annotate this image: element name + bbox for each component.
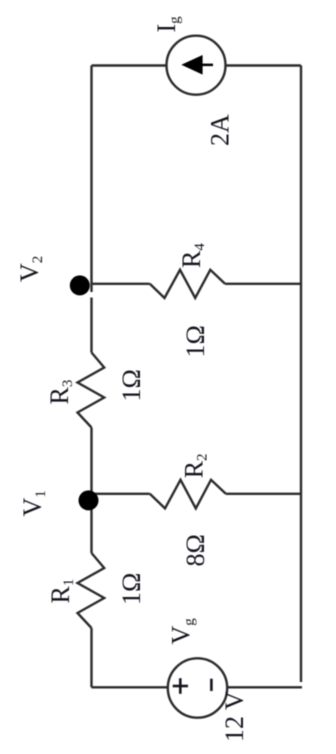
node V2 dot (70, 275, 90, 295)
svg-text:V1: V1 (18, 490, 49, 516)
wire bottom horizontal (left of voltage source) (92, 686, 169, 688)
voltage source Vg circle (168, 658, 227, 717)
wire left vertical (R3 to R1 through node V1) (90, 428, 92, 554)
svg-text:1Ω: 1Ω (117, 369, 146, 401)
svg-text:8Ω: 8Ω (181, 534, 210, 566)
current source arrow (181, 55, 213, 75)
resistor R4 (150, 270, 225, 298)
voltage source plus sign (173, 678, 188, 694)
svg-text:2A: 2A (206, 114, 235, 146)
svg-text:12 V: 12 V (220, 691, 249, 742)
svg-text:R3: R3 (45, 380, 76, 405)
resistor R3 (78, 353, 105, 428)
resistor R2 (150, 480, 226, 509)
svg-text:Vg: Vg (167, 618, 198, 645)
wire left vertical (below V2 gap to R3) (90, 298, 92, 353)
svg-text:1Ω: 1Ω (117, 573, 146, 605)
wire right vertical (300, 66, 302, 683)
wire top horizontal (left of current source) (92, 64, 167, 66)
voltage source minus sign (210, 679, 213, 691)
wire left vertical upper (top corner to node V2) (90, 66, 92, 293)
svg-text:Ig: Ig (152, 16, 183, 33)
wire top horizontal (right of current source) (226, 64, 301, 66)
svg-text:R1: R1 (46, 579, 77, 604)
resistor R1 (78, 553, 105, 628)
svg-text:R4: R4 (177, 243, 208, 268)
wire R2 to right vertical (226, 493, 301, 495)
node V1 dot (79, 490, 99, 510)
current source Ig circle (167, 36, 226, 95)
wire left vertical lower (R1 to bottom corner) (90, 628, 92, 687)
wire branch V2 to R4 (92, 283, 150, 285)
wire branch V1 to R2 (92, 493, 150, 495)
svg-text:R2: R2 (179, 453, 210, 478)
svg-text:1Ω: 1Ω (181, 325, 210, 357)
wire bottom horizontal (right of voltage source) (227, 686, 302, 688)
svg-text:V2: V2 (15, 256, 46, 282)
wire R4 to right vertical (225, 283, 301, 285)
